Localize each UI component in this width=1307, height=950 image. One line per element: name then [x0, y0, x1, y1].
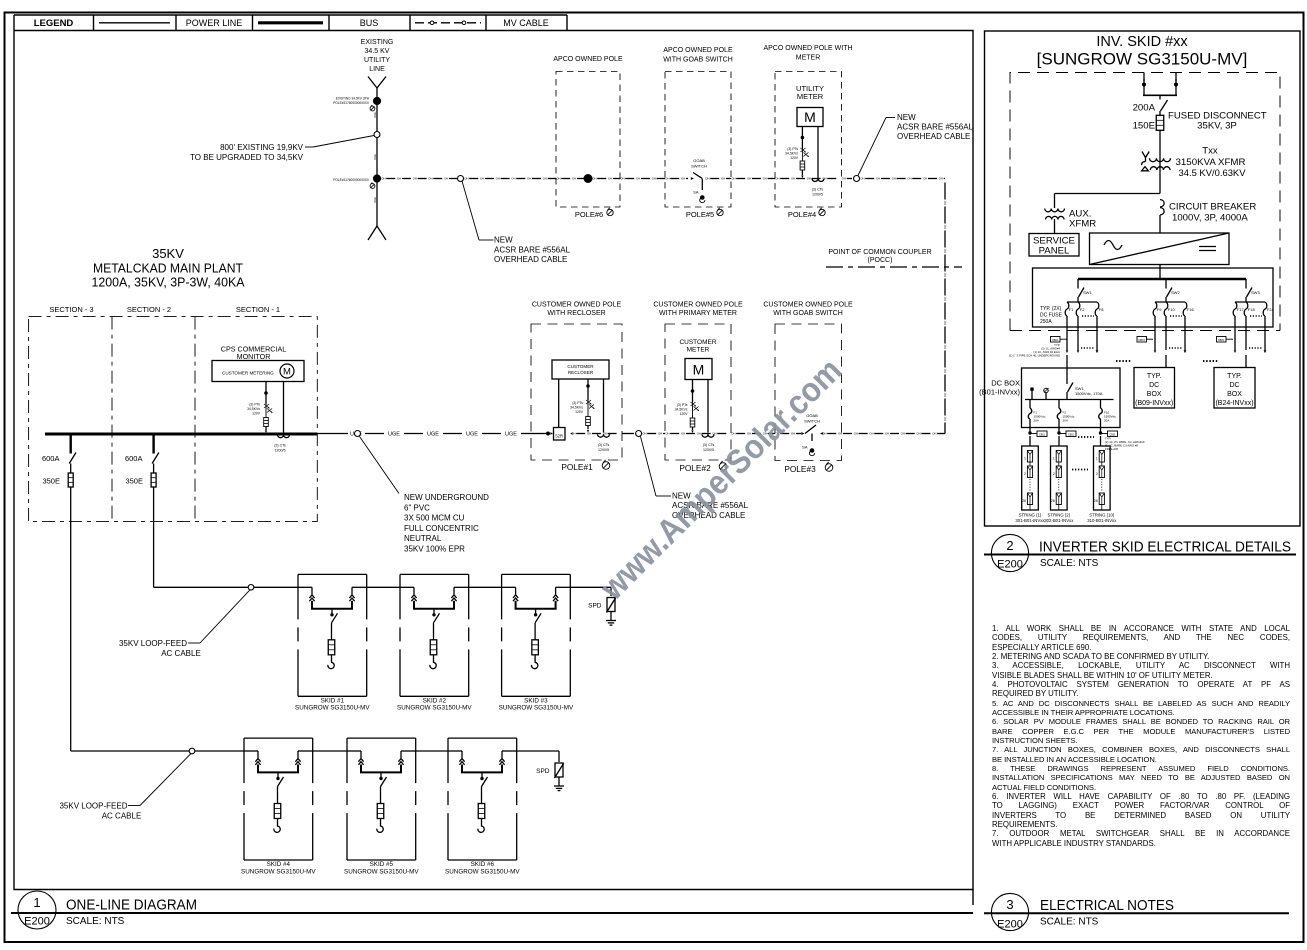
svg-text:20A: 20A — [1104, 419, 1109, 423]
aux transformer branch — [1055, 193, 1161, 195]
svg-text:OH: OH — [885, 432, 889, 436]
svg-text:OH: OH — [428, 177, 432, 181]
svg-text:MV CABLE: MV CABLE — [503, 18, 549, 28]
svg-text:301-B01-INVxx: 301-B01-INVxx — [1015, 518, 1045, 523]
loop feed stubs — [1143, 73, 1145, 96]
svg-text:OH: OH — [697, 432, 701, 436]
svg-text:OH: OH — [413, 177, 417, 181]
svg-text:OH: OH — [511, 177, 515, 181]
utility pole tap upper — [373, 97, 380, 104]
svg-text:NEW: NEW — [494, 236, 513, 245]
POCC marker line — [826, 266, 962, 268]
customer meter M box — [685, 359, 712, 380]
svg-text:SKID #2: SKID #2 — [423, 697, 447, 704]
svg-text:POLE#3: POLE#3 — [784, 464, 816, 474]
svg-text:1: 1 — [1053, 457, 1055, 461]
svg-text:UGE: UGE — [466, 432, 478, 438]
svg-text:AC CABLE: AC CABLE — [161, 649, 201, 658]
svg-text:M: M — [693, 362, 705, 378]
svg-text:350E: 350E — [42, 477, 60, 486]
disconnect switch in SKID #2 — [433, 609, 435, 614]
svg-text:OVERHEAD CABLE: OVERHEAD CABLE — [494, 255, 567, 264]
svg-text:E200: E200 — [997, 559, 1023, 571]
svg-text:OH: OH — [943, 297, 947, 301]
svg-text:UGE: UGE — [388, 432, 400, 438]
svg-text:ACSR BARE #556AL: ACSR BARE #556AL — [897, 123, 974, 132]
leader NEW ACSR label (right) — [858, 118, 886, 176]
sheet title 2 bubble — [991, 534, 1028, 571]
customer recloser box — [552, 360, 609, 379]
svg-text:SCALE: NTS: SCALE: NTS — [1040, 917, 1099, 928]
svg-text:OH: OH — [620, 177, 624, 181]
inverter skid box SKID #5 — [347, 737, 416, 739]
svg-text:1200/5: 1200/5 — [275, 449, 286, 453]
svg-text:CUSTOMER: CUSTOMER — [679, 339, 716, 346]
fuse in SKID #2 — [430, 640, 437, 655]
svg-text:SECTION - 2: SECTION - 2 — [127, 305, 171, 314]
svg-text:SUNGROW SG3150U-MV: SUNGROW SG3150U-MV — [499, 705, 574, 712]
svg-text:250A: 250A — [1040, 319, 1052, 325]
POLE#1 PT branch — [587, 379, 589, 400]
typ dc box B09 — [1165, 355, 1167, 368]
svg-text:GOAB: GOAB — [693, 158, 705, 163]
riser circle after POLE#1 — [622, 433, 634, 435]
leader NEW ACSR overhead (bottom) — [641, 437, 657, 497]
svg-text:ACSR BARE #556AL: ACSR BARE #556AL — [494, 245, 571, 254]
fuse in SKID #3 — [532, 640, 539, 655]
svg-text:OH: OH — [791, 177, 795, 181]
svg-text:PANEL: PANEL — [1039, 246, 1070, 257]
svg-text:NEUTRAL: NEUTRAL — [404, 534, 442, 543]
sheet title 1 divider — [11, 912, 973, 914]
inverter skid box SKID #6 — [448, 737, 517, 739]
svg-text:(3) PTs: (3) PTs — [677, 403, 688, 407]
svg-text:F17: F17 — [1237, 307, 1245, 312]
svg-text:MONITOR: MONITOR — [237, 352, 271, 361]
svg-text:POLE#5: POLE#5 — [686, 210, 714, 219]
svg-text:FREE-AIR: FREE-AIR — [1105, 447, 1118, 451]
DC box surge/ground — [1030, 388, 1033, 391]
POLE#2 PT branch — [692, 380, 694, 403]
svg-text:310-B01-INVxx: 310-B01-INVxx — [1087, 518, 1117, 523]
svg-text:POLE#6: POLE#6 — [575, 210, 603, 219]
svg-text:TYP.: TYP. — [1227, 373, 1242, 380]
svg-text:600A: 600A — [42, 454, 60, 463]
DC box string fuse 3 — [1100, 400, 1102, 409]
svg-text:XFMR: XFMR — [1069, 219, 1096, 230]
svg-text:TYP. (2X): TYP. (2X) — [1040, 306, 1062, 312]
transformer Txx wye symbol — [1142, 152, 1146, 158]
svg-text:APCO OWNED POLE: APCO OWNED POLE — [553, 56, 623, 63]
loop feed row 1 wire — [154, 586, 248, 588]
svg-text:35KV: 35KV — [152, 246, 184, 261]
string box 3 — [1094, 446, 1111, 510]
svg-text:34,5KVs: 34,5KVs — [675, 408, 688, 412]
feeder breaker section 3 — [69, 434, 71, 454]
disconnect switch in SKID #6 — [481, 772, 483, 777]
svg-text:CUSTOMER OWNED POLE: CUSTOMER OWNED POLE — [532, 302, 622, 309]
switchgear enclosure box — [29, 317, 318, 522]
svg-text:SKID #4: SKID #4 — [267, 861, 291, 868]
svg-text:OH: OH — [860, 177, 864, 181]
svg-text:35KV LOOP-FEED: 35KV LOOP-FEED — [59, 802, 127, 811]
svg-text:TYP.: TYP. — [1147, 373, 1162, 380]
svg-text:POWER LINE: POWER LINE — [186, 18, 243, 28]
svg-text:OH: OH — [943, 321, 947, 325]
svg-text:OH: OH — [869, 432, 873, 436]
svg-text:OH: OH — [943, 249, 947, 253]
svg-text:WITH GOAB SWITCH: WITH GOAB SWITCH — [663, 57, 733, 64]
svg-text:34.5 KV/0.63KV: 34.5 KV/0.63KV — [1179, 168, 1247, 179]
svg-text:35KV 100% EPR: 35KV 100% EPR — [404, 545, 465, 554]
vertical MV cable to POCC — [944, 183, 946, 200]
main box right edge extension — [972, 890, 974, 906]
svg-text:DC BOX: DC BOX — [991, 379, 1020, 388]
svg-text:SA: SA — [693, 190, 699, 195]
svg-text:52R: 52R — [555, 433, 563, 438]
svg-text:METALCKAD MAIN PLANT: METALCKAD MAIN PLANT — [93, 261, 243, 276]
svg-text:3150KVA XFMR: 3150KVA XFMR — [1176, 157, 1246, 168]
row2 link wires — [313, 750, 347, 752]
svg-text:302-B01-INVxx: 302-B01-INVxx — [1044, 518, 1074, 523]
right panel border — [985, 31, 1301, 526]
svg-text:E200: E200 — [24, 916, 50, 928]
svg-text:F9: F9 — [1157, 307, 1162, 312]
elbow termination in SKID #2 — [430, 660, 436, 669]
svg-text:OH: OH — [592, 177, 596, 181]
svg-text:OH: OH — [943, 345, 947, 349]
svg-text:SPD: SPD — [536, 768, 550, 775]
svg-text:1200/5: 1200/5 — [812, 193, 823, 197]
svg-text:OH: OH — [572, 177, 576, 181]
svg-text:OH: OH — [932, 432, 936, 436]
svg-text:CUSTOMER OWNED POLE: CUSTOMER OWNED POLE — [763, 302, 853, 309]
svg-text:35KV LOOP-FEED: 35KV LOOP-FEED — [119, 639, 187, 648]
svg-text:OH: OH — [556, 177, 560, 181]
sheet title 1 bubble — [18, 891, 56, 929]
customer owned pole with GOAB switch POLE#3 box — [775, 324, 842, 461]
svg-text:F16: F16 — [1187, 307, 1195, 312]
svg-text:F18: F18 — [1248, 307, 1256, 312]
elbow termination in SKID #6 — [478, 824, 484, 833]
svg-text:OH: OH — [943, 225, 947, 229]
corner of MV cable — [944, 428, 946, 434]
svg-text:1: 1 — [1096, 457, 1098, 461]
DC branch F1 — [1077, 279, 1079, 289]
svg-text:F10: F10 — [1168, 307, 1176, 312]
branch output tags — [1051, 337, 1061, 343]
svg-text:DB01: DB01 — [1138, 338, 1145, 342]
svg-text:F1: F1 — [1069, 307, 1074, 312]
leader NEW ACSR label (left) — [462, 181, 479, 240]
dots between tags — [1078, 436, 1094, 438]
CPS PT branch — [265, 382, 267, 405]
svg-text:APCO OWNED POLE: APCO OWNED POLE — [663, 47, 733, 54]
svg-text:CUSTOMER METERING: CUSTOMER METERING — [222, 371, 274, 376]
svg-text:1200/5: 1200/5 — [598, 448, 609, 452]
svg-text:OHE: OHE — [373, 112, 377, 118]
svg-text:OH: OH — [807, 177, 811, 181]
svg-text:(3) CTs: (3) CTs — [812, 188, 824, 192]
svg-text:METER: METER — [687, 347, 710, 354]
svg-text:SCALE: NTS: SCALE: NTS — [1040, 558, 1099, 569]
svg-text:SKID #5: SKID #5 — [370, 861, 394, 868]
svg-text:(3) PTs: (3) PTs — [249, 403, 260, 407]
svg-text:26: 26 — [1051, 499, 1055, 503]
svg-text:800' EXISTING 19,9KV: 800' EXISTING 19,9KV — [220, 143, 304, 152]
svg-text:SW3: SW3 — [1251, 290, 1260, 295]
svg-text:UGE: UGE — [427, 432, 439, 438]
svg-text:TO BE UPGRADED TO 34,5KV: TO BE UPGRADED TO 34,5KV — [190, 153, 304, 162]
legend bus sample — [258, 21, 323, 24]
svg-text:BUS: BUS — [360, 18, 379, 28]
svg-text:SKID #1: SKID #1 — [321, 697, 345, 704]
svg-text:OH: OH — [381, 177, 385, 181]
svg-text:UTILITY: UTILITY — [364, 57, 390, 64]
svg-text:SECTION - 1: SECTION - 1 — [236, 305, 280, 314]
svg-text:DC: DC — [1149, 382, 1159, 389]
svg-text:OH: OH — [943, 393, 947, 397]
typ dc box B24 — [1245, 355, 1247, 368]
elbow termination in SKID #5 — [377, 824, 383, 833]
svg-text:SWITCH: SWITCH — [691, 164, 707, 169]
svg-text:2: 2 — [1024, 472, 1026, 476]
svg-text:OH: OH — [763, 177, 767, 181]
svg-text:INV. SKID #xx: INV. SKID #xx — [1096, 34, 1188, 50]
svg-text:OH: OH — [587, 432, 591, 436]
svg-text:E200: E200 — [997, 919, 1023, 931]
DC box internal bus — [1025, 399, 1114, 401]
section dividers — [111, 317, 113, 522]
svg-text:(POCC): (POCC) — [868, 257, 893, 264]
svg-text:POLE#4: POLE#4 — [788, 210, 816, 219]
utility line top fork — [368, 77, 377, 89]
loop bus in SKID #2 — [400, 586, 414, 588]
electrical notes text — [992, 624, 1290, 848]
sheet title 2 divider — [984, 554, 1296, 556]
svg-text:M: M — [283, 367, 291, 378]
svg-text:[SUNGROW SG3150U-MV]: [SUNGROW SG3150U-MV] — [1037, 50, 1248, 69]
disconnect switch in SKID #4 — [277, 772, 279, 777]
sheet title 3 divider — [984, 912, 1289, 914]
svg-text:OH: OH — [892, 177, 896, 181]
loop bus in SKID #5 — [347, 750, 361, 752]
svg-text:34.5 KV: 34.5 KV — [365, 48, 390, 55]
svg-text:DB01: DB01 — [1052, 338, 1059, 342]
customer metering box — [212, 361, 304, 382]
svg-text:120V: 120V — [680, 412, 689, 416]
svg-text:LINE: LINE — [369, 66, 385, 73]
inverter skid box SKID #3 — [502, 573, 571, 575]
legend power line sample — [99, 22, 170, 24]
APCO owned pole with meter POLE#4 box — [775, 72, 842, 208]
svg-text:1: 1 — [1024, 457, 1026, 461]
svg-text:OH: OH — [916, 432, 920, 436]
svg-text:NEW UNDERGROUND: NEW UNDERGROUND — [404, 493, 489, 502]
inverter skid dashed enclosure — [1010, 73, 1280, 331]
svg-text:OH: OH — [775, 177, 779, 181]
svg-text:BOX: BOX — [1147, 391, 1162, 398]
string box 1 — [1022, 446, 1039, 510]
svg-text:OH: OH — [681, 432, 685, 436]
svg-text:OH: OH — [854, 432, 858, 436]
svg-text:(B24-INVxx): (B24-INVxx) — [1215, 400, 1253, 407]
svg-text:OH: OH — [636, 177, 640, 181]
svg-text:WITH PRIMARY METER: WITH PRIMARY METER — [659, 310, 737, 317]
svg-text:CUSTOMER: CUSTOMER — [567, 364, 594, 369]
svg-text:NEW: NEW — [897, 113, 916, 122]
svg-text:1000V, 3P, 4000A: 1000V, 3P, 4000A — [1172, 213, 1248, 224]
svg-text:OH: OH — [721, 177, 725, 181]
svg-text:1: 1 — [33, 895, 40, 910]
svg-text:METER: METER — [796, 55, 821, 62]
svg-text:OH: OH — [943, 369, 947, 373]
utility meter M box — [797, 108, 823, 127]
svg-text:(1) 1" S PIPE SCH 40, UNDERGRO: (1) 1" S PIPE SCH 40, UNDERGROUND — [1009, 354, 1060, 358]
svg-text:34,5KVs: 34,5KVs — [570, 406, 583, 410]
svg-text:2: 2 — [1053, 472, 1055, 476]
svg-text:1500Vdc, 170A: 1500Vdc, 170A — [1075, 391, 1103, 396]
loop bus in SKID #4 — [244, 750, 258, 752]
row1 link wires — [367, 586, 401, 588]
svg-text:ELECTRICAL NOTES: ELECTRICAL NOTES — [1040, 898, 1174, 914]
svg-text:OH: OH — [444, 177, 448, 181]
svg-text:600A: 600A — [125, 454, 143, 463]
APCO owned pole with GOAB switch POLE#5 box — [665, 72, 731, 208]
svg-text:1200/5: 1200/5 — [703, 448, 714, 452]
transformer Txx delta symbol — [1142, 167, 1149, 171]
svg-text:F8: F8 — [1099, 307, 1104, 312]
loop bus in SKID #3 — [502, 586, 516, 588]
POLE#2 CT branch — [707, 380, 709, 433]
svg-text:EXISTING 34,5KV 3PH: EXISTING 34,5KV 3PH — [336, 97, 370, 101]
DC bus — [1078, 278, 1246, 280]
inverter skid box SKID #2 — [400, 573, 469, 575]
svg-text:OH: OH — [642, 432, 646, 436]
svg-text:3: 3 — [1006, 897, 1013, 912]
svg-text:OH: OH — [731, 177, 735, 181]
POLE#4 PT branch — [801, 127, 803, 149]
svg-text:OH: OH — [943, 201, 947, 205]
svg-text:OH: OH — [665, 177, 669, 181]
svg-text:LEGEND: LEGEND — [34, 18, 74, 29]
loop bus in SKID #1 — [298, 586, 312, 588]
svg-text:RECLOSER: RECLOSER — [568, 370, 594, 375]
svg-text:2: 2 — [1096, 472, 1098, 476]
svg-text:OH: OH — [397, 177, 401, 181]
svg-text:F24: F24 — [1267, 307, 1275, 312]
svg-text:FULL CONCENTRIC: FULL CONCENTRIC — [404, 524, 479, 533]
string box 2 — [1051, 446, 1068, 510]
utility pole tap lower — [373, 175, 380, 182]
svg-text:OH: OH — [822, 432, 826, 436]
sheet title 3 bubble — [991, 893, 1028, 930]
svg-text:EXISTING: EXISTING — [361, 39, 394, 46]
APCO owned pole POLE#6 box — [556, 72, 620, 208]
svg-text:(3) CTs: (3) CTs — [274, 444, 286, 448]
svg-text:OH: OH — [842, 177, 846, 181]
svg-text:3X 500 MCM CU: 3X 500 MCM CU — [404, 514, 465, 523]
svg-text:34,5KVs: 34,5KVs — [785, 152, 798, 156]
svg-text:OH: OH — [838, 432, 842, 436]
svg-text:OH: OH — [901, 432, 905, 436]
svg-text:CUSTOMER OWNED POLE: CUSTOMER OWNED POLE — [653, 302, 743, 309]
svg-text:OH: OH — [652, 177, 656, 181]
svg-text:DC: DC — [1229, 382, 1239, 389]
svg-text:CIRCUIT BREAKER: CIRCUIT BREAKER — [1169, 202, 1256, 213]
svg-text:UGE: UGE — [505, 432, 517, 438]
svg-text:METER: METER — [797, 92, 824, 101]
svg-text:150E: 150E — [1133, 121, 1155, 132]
svg-text:OH: OH — [876, 177, 880, 181]
fuse in SKID #1 — [328, 640, 335, 655]
svg-text:STRING (1): STRING (1) — [1019, 513, 1042, 518]
svg-text:SW1: SW1 — [1083, 290, 1092, 295]
svg-text:OH: OH — [731, 432, 735, 436]
svg-text:OVERHEAD CABLE: OVERHEAD CABLE — [897, 132, 970, 141]
svg-text:CB01: CB01 — [1068, 433, 1075, 436]
svg-text:OH: OH — [543, 177, 547, 181]
svg-text:(B01-INVxx): (B01-INVxx) — [979, 388, 1020, 397]
svg-text:(3) CTs: (3) CTs — [703, 443, 715, 447]
inverter skid box SKID #4 — [244, 737, 313, 739]
main 35kv bus — [45, 433, 317, 436]
svg-text:OH: OH — [943, 417, 947, 421]
recloser 52R breaker — [558, 379, 560, 428]
svg-text:INVERTER SKID ELECTRICAL DETAI: INVERTER SKID ELECTRICAL DETAILS — [1039, 540, 1291, 556]
inverter skid box SKID #1 — [298, 573, 367, 575]
transformer Txx coils — [1150, 158, 1171, 162]
svg-text:26: 26 — [1022, 499, 1026, 503]
svg-text:OH: OH — [496, 177, 500, 181]
svg-text:OH: OH — [608, 177, 612, 181]
svg-text:SA: SA — [802, 445, 808, 450]
elbow termination in SKID #4 — [274, 824, 280, 833]
legend mv cable sample — [415, 22, 481, 24]
svg-text:Txx: Txx — [1202, 146, 1218, 157]
POLE#1 CT branch — [603, 379, 605, 433]
svg-text:POINT OF COMMON COUPLER: POINT OF COMMON COUPLER — [828, 249, 931, 256]
svg-text:(3) PTs: (3) PTs — [572, 401, 583, 405]
svg-text:120V: 120V — [252, 412, 261, 416]
svg-text:POLE#317600000000XX: POLE#317600000000XX — [333, 101, 370, 105]
loop bus in SKID #6 — [448, 750, 462, 752]
service panel box — [1029, 234, 1079, 257]
elbow termination in SKID #1 — [328, 660, 334, 669]
svg-text:OH: OH — [658, 432, 662, 436]
feeder to skid row 2 wire — [70, 487, 72, 751]
DC branch F9 — [1165, 279, 1167, 289]
svg-text:2: 2 — [1006, 538, 1013, 553]
svg-text:OH: OH — [705, 177, 709, 181]
svg-text:OH: OH — [943, 273, 947, 277]
svg-text:OHE: OHE — [373, 154, 377, 160]
svg-text:AC CABLE: AC CABLE — [102, 812, 142, 821]
svg-text:STRING (10): STRING (10) — [1089, 513, 1115, 518]
svg-text:OH: OH — [923, 177, 927, 181]
utility line wire — [376, 88, 378, 226]
DC BOX B01 detail — [1066, 355, 1068, 384]
svg-text:F2: F2 — [1080, 307, 1085, 312]
svg-text:20A: 20A — [1034, 419, 1039, 423]
elbow termination in SKID #3 — [531, 660, 537, 669]
svg-text:20A: 20A — [1063, 419, 1068, 423]
svg-text:APCO OWNED POLE WITH: APCO OWNED POLE WITH — [763, 45, 852, 52]
svg-text:STRING (2): STRING (2) — [1047, 513, 1070, 518]
DC collection box — [1033, 268, 1274, 327]
svg-text:DC FUSE: DC FUSE — [1040, 313, 1063, 319]
svg-text:SUNGROW SG3150U-MV: SUNGROW SG3150U-MV — [445, 868, 520, 875]
